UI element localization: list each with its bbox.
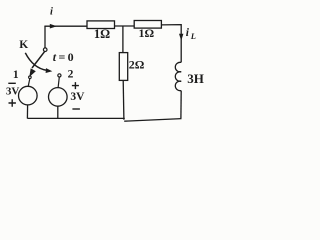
wire top right to corner — [161, 25, 181, 63]
resistor R2 1ohm box — [134, 21, 161, 29]
voltage source V2 circle — [49, 88, 68, 107]
resistor R3 2ohm box — [119, 53, 127, 81]
node contact 2 — [58, 74, 61, 77]
label V2 minus — [72, 108, 80, 110]
wire contact2 to source V2 — [58, 77, 59, 88]
svg-text:t=0: t=0 — [53, 50, 76, 64]
svg-text:3V: 3V — [6, 85, 20, 97]
node junction vertical to 2ohm — [122, 26, 124, 53]
svg-text:2Ω: 2Ω — [129, 57, 145, 71]
svg-text:2: 2 — [68, 69, 74, 81]
svg-text:3V: 3V — [70, 91, 85, 103]
wire switch vertical lead — [44, 26, 46, 48]
wire V2 bottom lead — [57, 106, 59, 118]
wire bottom right segment — [124, 119, 181, 122]
resistor R1 1ohm box — [87, 21, 115, 29]
svg-text:L: L — [190, 31, 196, 41]
svg-text:1Ω: 1Ω — [139, 26, 155, 40]
svg-text:1Ω: 1Ω — [94, 27, 110, 41]
switch K pivot node — [43, 48, 47, 52]
switch arm with arrow to contact 1 — [32, 52, 45, 68]
wire V1 bottom lead — [26, 105, 28, 119]
svg-text:K: K — [19, 39, 28, 51]
wire inductor bottom lead — [180, 91, 182, 119]
svg-text:1: 1 — [13, 69, 19, 81]
current arrow iL — [179, 34, 183, 41]
node contact 1 — [29, 76, 32, 79]
wire top left horizontal — [44, 25, 87, 27]
svg-text:i: i — [50, 7, 53, 18]
label V1 minus — [8, 82, 16, 84]
label V2 plus — [72, 82, 79, 89]
inductor L 3H coil — [175, 62, 181, 90]
current arrow i — [50, 24, 57, 29]
svg-text:i: i — [186, 27, 190, 39]
wire contact1 to source V1 — [28, 79, 30, 87]
wire 2ohm bottom lead — [122, 80, 125, 119]
svg-text:3H: 3H — [187, 71, 204, 86]
label V1 plus — [9, 99, 16, 106]
voltage source V1 circle — [19, 86, 38, 105]
wire bottom left segment — [27, 117, 124, 119]
switch motion arc t=0 — [25, 53, 47, 71]
wire between resistors — [115, 25, 135, 27]
